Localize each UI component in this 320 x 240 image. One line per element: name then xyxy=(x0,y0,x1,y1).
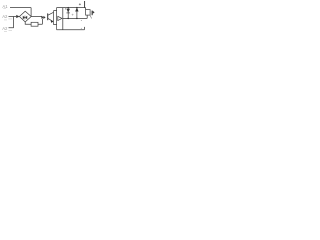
diode D3 (down) xyxy=(67,8,70,19)
plus polarity label xyxy=(79,3,81,5)
optocoupler U1 LED arrows xyxy=(41,16,45,19)
phototransistor vertical wire xyxy=(54,11,57,25)
wire vertical drop to bridge right vertex xyxy=(30,8,32,17)
node A2 label (bottom) xyxy=(2,26,8,31)
bridge rectifier internal diodes xyxy=(23,16,27,20)
svg-text:A2: A2 xyxy=(2,26,8,31)
wire A2 middle xyxy=(9,16,17,18)
wire output line xyxy=(63,17,87,19)
freewheel diode D2 xyxy=(58,16,62,20)
terminal X1 box xyxy=(86,10,91,16)
bottom terminal mark xyxy=(81,27,82,29)
phototransistor collector xyxy=(48,12,54,15)
node A2 bottom sub marks xyxy=(4,31,12,32)
node A1 sub mark xyxy=(3,8,6,10)
terminal tail mark xyxy=(90,15,92,18)
node A1 label xyxy=(2,4,8,9)
node A2 sub marks xyxy=(4,19,12,20)
output box top edge xyxy=(57,7,86,9)
wire bottom rail xyxy=(57,27,85,30)
wire bridge bottom to resistor xyxy=(25,22,31,24)
junction dots D4 xyxy=(76,7,77,8)
diode D4 (up) xyxy=(75,7,78,18)
wire stub up to terminal 13 xyxy=(84,1,86,8)
wire inner vertical bus xyxy=(62,8,64,30)
plus label mid xyxy=(72,14,74,16)
wire A2 bottom with riser xyxy=(9,17,14,28)
wire top rail from A1 xyxy=(10,7,31,9)
wire resistor to LED return xyxy=(38,19,42,25)
diode lead tick xyxy=(65,8,67,10)
output box left edge xyxy=(56,8,58,30)
svg-text:A1: A1 xyxy=(2,4,8,9)
diode D1 polarity arrow xyxy=(16,15,19,18)
wire rail into terminal xyxy=(85,8,87,10)
phototransistor emitter with arrow xyxy=(48,18,54,23)
node A2 label (middle) xyxy=(2,14,8,19)
wire bridge output to LED xyxy=(31,16,41,18)
svg-text:A2: A2 xyxy=(2,14,8,19)
wire output upturn to terminal xyxy=(86,15,88,18)
resistor R1 xyxy=(31,22,38,26)
minus polarity mark xyxy=(81,20,82,22)
bridge rectifier V1 diamond xyxy=(19,11,31,22)
junction dots D3 xyxy=(67,7,69,9)
terminal label 14 glyph xyxy=(92,11,95,16)
optocoupler U1 phototransistor base bar xyxy=(47,13,49,20)
